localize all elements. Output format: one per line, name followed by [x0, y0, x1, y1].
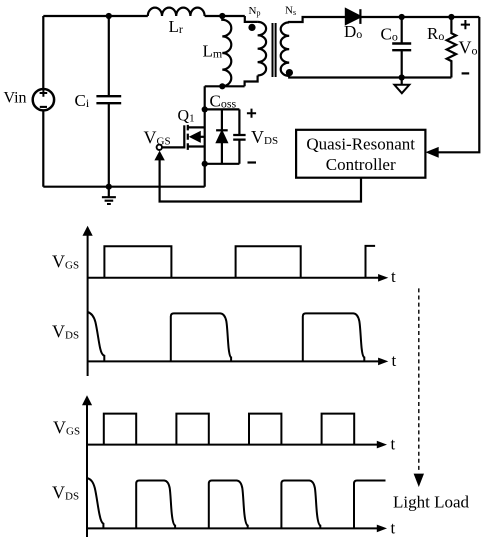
axis VDS1 horizontal	[88, 360, 379, 362]
node dot drain	[202, 106, 208, 112]
waveform VGS2 pulse3	[249, 414, 281, 445]
plus sign VDS	[247, 109, 256, 118]
resistor Ro	[447, 17, 456, 78]
waveform VDS2 pulse3	[281, 481, 320, 529]
waveform VDS2 pulse4 partial	[354, 481, 386, 529]
wire Ns bottom rail	[289, 76, 451, 78]
transistor Q1 drain stub	[188, 126, 205, 128]
transformer secondary Ns	[281, 22, 290, 76]
axis VGS2 vertical	[86, 405, 88, 538]
svg-text:Quasi-Resonant: Quasi-Resonant	[306, 135, 415, 154]
wire drain rail	[205, 85, 245, 87]
transistor Q1 channel dashes	[187, 125, 189, 150]
arrowhead VGS1 up	[83, 226, 93, 236]
wire Np bottom jog	[245, 76, 258, 87]
waveform VGS2 pulse2	[176, 414, 208, 445]
transistor Q1 body arrow	[190, 132, 201, 143]
arrowhead VDS2 t	[377, 525, 387, 533]
waveform VDS1 partial	[88, 312, 105, 361]
waveform VGS2 pulse1	[104, 414, 136, 445]
waveform VDS1 pulse3	[303, 313, 365, 361]
wire Vin bottom lead	[42, 110, 44, 186]
wire bottom rail	[43, 186, 204, 188]
node dot Lm bottom	[219, 83, 225, 89]
transformer core	[273, 23, 276, 77]
arrowhead VGS2 t	[377, 441, 387, 449]
axis VGS2 horizontal	[87, 444, 378, 446]
minus sign Vo	[462, 72, 470, 74]
transistor Q1 source stub	[188, 145, 205, 147]
wire Ns top jog	[289, 17, 346, 22]
wire snubber top rail	[205, 108, 240, 110]
diode Do	[346, 9, 361, 24]
node dot top rail Ci	[106, 13, 112, 19]
wire top rail left	[43, 15, 148, 17]
capacitor Co	[401, 17, 403, 78]
transformer primary Np	[258, 22, 267, 76]
wire Vin top lead	[42, 16, 44, 89]
ground secondary	[401, 78, 403, 85]
polarity dot Ns	[286, 69, 293, 76]
waveform VGS1 pulse2	[236, 246, 301, 278]
wire controller bottom feedback	[160, 159, 361, 202]
arrowhead VGS1 t	[378, 274, 388, 282]
capacitor Ci	[108, 16, 110, 187]
wire drain-source vertical	[204, 86, 206, 186]
svg-text:t: t	[392, 351, 397, 370]
waveform VGS1 pulse1	[104, 246, 171, 278]
wire snubber bottom rail	[205, 163, 240, 165]
axis VDS2 horizontal	[87, 527, 378, 529]
waveform VDS2 pulse1	[136, 481, 175, 529]
arrowhead VDS1 t	[378, 358, 388, 366]
arrowhead VGS2 up	[82, 395, 92, 405]
inductor Lm	[222, 16, 231, 86]
waveform set 1	[88, 235, 379, 377]
wire gate lead	[162, 146, 184, 148]
waveform VGS2 pulse4	[322, 414, 355, 445]
node dot source	[202, 161, 208, 167]
polarity dot Np	[248, 24, 255, 31]
ground	[108, 187, 110, 197]
axis VGS1 vertical	[87, 235, 89, 377]
controller box	[296, 130, 425, 178]
axis VGS1 horizontal	[88, 277, 379, 279]
wire Np top jog	[245, 16, 258, 22]
inductor Lr	[148, 8, 205, 16]
waveform set 2	[87, 405, 386, 538]
node dot Lr Lm	[219, 13, 225, 19]
waveform VDS2 pulse2	[209, 481, 248, 529]
svg-text:Light Load: Light Load	[393, 492, 470, 511]
capacitor Coss	[238, 109, 240, 163]
node gate circle	[157, 145, 162, 150]
diode body D1	[221, 109, 223, 163]
arrowhead into controller	[425, 147, 438, 158]
arrowhead gate drive	[154, 151, 164, 161]
svg-text:t: t	[391, 519, 396, 538]
node dot Ro top	[448, 14, 454, 20]
node dot Co top	[399, 14, 405, 20]
svg-text:t: t	[391, 435, 396, 454]
source Vin	[33, 89, 54, 110]
dashed arrow light load	[418, 288, 420, 472]
svg-text:Vin: Vin	[4, 89, 27, 106]
node dot Co bottom	[399, 74, 405, 80]
transistor Q1 gate bar	[183, 125, 185, 148]
wire right edge feedback	[439, 17, 480, 152]
svg-text:Controller: Controller	[326, 155, 396, 174]
waveform VDS2 partial	[87, 478, 103, 528]
minus sign VDS	[248, 161, 257, 163]
node dot bottom rail ground	[106, 184, 112, 190]
plus sign Vo	[461, 20, 470, 29]
wire top rail mid	[205, 15, 245, 17]
waveform VDS1 pulse2	[171, 313, 231, 361]
waveform VGS1 pulse3 partial	[366, 246, 376, 278]
svg-text:t: t	[391, 267, 396, 286]
wire Do to right corner	[361, 16, 480, 18]
